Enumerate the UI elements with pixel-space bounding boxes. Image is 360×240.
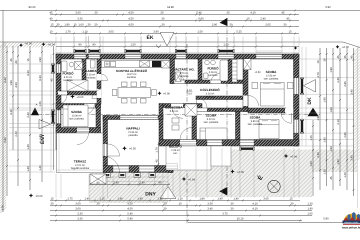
wall vestibule east: [192, 112, 197, 140]
window pantry north: [89, 54, 101, 58]
svg-text:4.10: 4.10: [250, 11, 256, 14]
level mark: [70, 94, 75, 99]
svg-text:kerámia: kerámia: [64, 79, 74, 82]
svg-text:+0.04: +0.04: [188, 179, 195, 182]
facade label DK: [304, 80, 316, 93]
dining table: [118, 88, 151, 98]
svg-text:+0.00: +0.00: [237, 171, 244, 174]
svg-text:2.85: 2.85: [344, 132, 347, 138]
wall bath1 south: [61, 91, 101, 95]
svg-text:30: 30: [57, 23, 60, 26]
svg-text:15: 15: [51, 23, 54, 26]
svg-text:DK: DK: [307, 97, 313, 105]
svg-text:1.40: 1.40: [27, 144, 30, 150]
washer utility: [176, 72, 182, 82]
svg-text:KÖZLEKEDŐ: KÖZLEKEDŐ: [200, 88, 220, 92]
svg-text:1.05: 1.05: [307, 212, 313, 215]
wall stub vestibule: [197, 104, 202, 109]
svg-text:30: 30: [231, 207, 234, 210]
door arc bedroom1-terrace: [77, 133, 89, 145]
plot boundary north line with overall dimension: [0, 10, 360, 12]
shutter box bedroom3 east: [301, 120, 303, 132]
wall bedroom1 south: [56, 128, 101, 134]
shutter box bath1: [75, 50, 85, 52]
wall bedrooms west: [243, 59, 248, 112]
svg-text:45: 45: [330, 176, 333, 179]
svg-text:30: 30: [231, 202, 234, 205]
svg-text:1.30: 1.30: [323, 169, 326, 175]
svg-text:10: 10: [50, 30, 53, 33]
svg-text:+0.00: +0.00: [77, 96, 84, 99]
section marker A left: [31, 107, 39, 115]
svg-text:1.40: 1.40: [84, 197, 90, 200]
wall exterior west: [56, 54, 61, 150]
svg-text:45: 45: [337, 55, 340, 58]
svg-text:5.40: 5.40: [127, 212, 133, 215]
svg-text:3.45: 3.45: [350, 155, 353, 161]
svg-text:1.10: 1.10: [187, 89, 192, 92]
svg-text:30: 30: [95, 11, 98, 14]
wall exterior south of living room: [103, 166, 173, 173]
pergola line above bedroom2 window: [256, 51, 282, 53]
svg-text:4.50: 4.50: [128, 17, 134, 20]
bottom dimension row 3: [50, 210, 312, 212]
svg-text:kerámia: kerámia: [209, 74, 219, 77]
door arc utility: [174, 73, 185, 84]
wall corridor north: [170, 80, 246, 84]
svg-text:ELŐSZOBA: ELŐSZOBA: [165, 105, 183, 109]
level mark: [336, 45, 340, 49]
svg-text:+0.00: +0.00: [163, 93, 170, 96]
svg-text:4.50: 4.50: [128, 23, 134, 26]
svg-text:45: 45: [10, 58, 13, 61]
shutter box kitchen: [126, 50, 140, 52]
bottom dimension row 2: [50, 205, 312, 207]
svg-text:45: 45: [350, 55, 353, 58]
svg-text:30: 30: [291, 202, 294, 205]
svg-text:45: 45: [155, 159, 158, 162]
wall bedroom1 east: [96, 104, 101, 133]
plot boundary south-east segment: [188, 222, 360, 224]
svg-text:kerámia: kerámia: [206, 96, 216, 99]
svg-text:1.15: 1.15: [99, 197, 105, 200]
svg-text:1.40: 1.40: [139, 181, 145, 184]
svg-text:otthonterv studio: otthonterv studio: [344, 221, 358, 224]
svg-text:8.30: 8.30: [27, 70, 30, 76]
wall corridor south: [192, 108, 248, 112]
svg-text:4.50: 4.50: [15, 82, 18, 88]
right dimension columns: [312, 120, 314, 196]
svg-text:1.40: 1.40: [113, 181, 119, 184]
svg-text:10: 10: [74, 23, 77, 26]
wall between east bedrooms: [248, 108, 286, 113]
wall bath1 east: [82, 59, 86, 81]
site ground hatch below porch: [168, 163, 231, 197]
svg-text:80.20: 80.20: [29, 6, 36, 9]
kitchen sink: [105, 62, 110, 67]
facade direction triangle EK: [160, 33, 174, 47]
svg-text:30: 30: [97, 202, 100, 205]
publisher logo: [341, 212, 360, 229]
svg-text:1.90: 1.90: [307, 207, 313, 210]
svg-text:10.10: 10.10: [237, 217, 244, 220]
svg-text:+0.04: +0.04: [290, 156, 297, 159]
svg-text:90: 90: [79, 44, 82, 47]
window bedroom3 south: [207, 140, 222, 146]
svg-text:3.05: 3.05: [108, 30, 114, 33]
svg-text:2.40: 2.40: [260, 17, 266, 20]
svg-text:15: 15: [51, 197, 54, 200]
svg-text:1.40: 1.40: [50, 112, 53, 118]
shaft at bedroom2 corner: [244, 59, 252, 70]
svg-text:18.80: 18.80: [167, 6, 174, 9]
svg-text:+0.34: +0.34: [48, 44, 55, 47]
svg-text:lam. parketta: lam. parketta: [248, 123, 263, 126]
svg-text:kerámia: kerámia: [180, 75, 190, 78]
svg-text:1.40: 1.40: [117, 197, 123, 200]
svg-text:SZOBA: SZOBA: [71, 110, 83, 114]
svg-text:1.90: 1.90: [323, 97, 326, 103]
wc bath2: [204, 73, 209, 79]
top dimension row 3: [50, 26, 299, 28]
svg-text:30: 30: [162, 17, 165, 20]
svg-text:1.80: 1.80: [330, 146, 333, 152]
svg-text:1.50: 1.50: [223, 44, 229, 47]
svg-text:TERASZ: TERASZ: [74, 160, 86, 164]
svg-text:30: 30: [51, 202, 54, 205]
svg-text:+0.50: +0.50: [129, 148, 136, 151]
window bedroom2 east: [294, 78, 299, 94]
boundary hatch strip west: [0, 42, 6, 213]
opening living north sliding: [120, 116, 158, 119]
level mark: [29, 193, 34, 198]
opening bedroom2 door: [243, 96, 248, 107]
pantry shelves: [91, 60, 96, 68]
bed bedroom2: [260, 82, 284, 106]
opening living terrace door: [103, 144, 107, 156]
wall corridor south inner: [196, 96, 243, 100]
extension lines bottom windows: [113, 176, 155, 185]
svg-text:1.70: 1.70: [65, 30, 71, 33]
svg-text:1.80: 1.80: [330, 107, 333, 113]
svg-text:1.50: 1.50: [130, 44, 136, 47]
svg-text:www.otthon.hu: www.otthon.hu: [341, 226, 360, 229]
svg-text:1.25: 1.25: [310, 135, 313, 141]
svg-text:1.90: 1.90: [317, 115, 320, 121]
svg-text:1.90: 1.90: [64, 23, 70, 26]
door arc bedroom1: [84, 104, 95, 115]
svg-text:30: 30: [164, 207, 167, 210]
wardrobe vestibule: [185, 104, 197, 116]
opening bedroom1 door: [84, 104, 95, 108]
svg-text:1.40: 1.40: [137, 197, 143, 200]
svg-text:30: 30: [162, 23, 165, 26]
svg-text:1.40: 1.40: [39, 134, 42, 140]
opening pantry east door: [97, 74, 102, 81]
svg-text:parketta: parketta: [128, 134, 138, 137]
svg-text:2.10: 2.10: [337, 119, 340, 125]
svg-text:3.75: 3.75: [222, 212, 228, 215]
svg-text:20: 20: [95, 23, 98, 26]
section line A vertical: [186, 44, 188, 224]
svg-text:2.40: 2.40: [15, 131, 18, 137]
kitchen dishwasher: [140, 61, 150, 68]
plot boundary west line: [2, 10, 4, 212]
level mark: [294, 46, 298, 50]
roof valley mark: [156, 45, 161, 49]
shutter box utility: [177, 50, 186, 52]
entry porch slab: [166, 146, 211, 170]
terrace steps: [90, 174, 106, 184]
opening bedroom1 terrace door: [77, 128, 89, 133]
svg-text:15: 15: [27, 58, 30, 61]
svg-text:6.60: 6.60: [198, 17, 204, 20]
svg-text:1.20: 1.20: [344, 172, 347, 178]
svg-text:1.10: 1.10: [82, 30, 88, 33]
bathtub bath1: [62, 61, 68, 72]
kitchen stove: [152, 61, 161, 67]
svg-text:5.40: 5.40: [127, 217, 133, 220]
svg-text:30: 30: [227, 11, 230, 14]
svg-text:fagyálló kerámia: fagyálló kerámia: [71, 167, 90, 170]
shaft ladder: [232, 60, 237, 83]
section marker B top: [220, 18, 228, 26]
svg-text:90: 90: [97, 181, 100, 184]
svg-text:5.25: 5.25: [236, 30, 242, 33]
section line A horizontal: [30, 114, 320, 116]
wall utility east: [198, 59, 202, 81]
window bedroom4 south: [240, 140, 254, 146]
wall vestibule north: [163, 104, 197, 108]
chairs: [122, 82, 128, 87]
small fixtures vestibule: [172, 118, 179, 123]
svg-text:2.60: 2.60: [212, 23, 218, 26]
door arc bedroom4: [281, 113, 291, 123]
svg-text:1.50: 1.50: [310, 161, 313, 167]
door arc vestibule: [172, 107, 183, 118]
svg-text:HÁZTART. HG.: HÁZTART. HG.: [173, 68, 194, 72]
shower box hall: [67, 80, 88, 91]
svg-text:+0.00: +0.00: [342, 46, 349, 49]
opening utility door: [174, 80, 185, 83]
wall exterior east: [294, 54, 300, 146]
svg-text:40: 40: [15, 60, 18, 63]
svg-text:SZOBA: SZOBA: [250, 115, 262, 119]
svg-text:3.90: 3.90: [153, 30, 159, 33]
svg-text:SZOBA: SZOBA: [206, 113, 218, 117]
svg-text:DNY: DNY: [145, 192, 156, 198]
svg-text:3.30: 3.30: [77, 212, 83, 215]
wall vestibule west: [159, 104, 163, 140]
level mark: [122, 146, 127, 151]
svg-text:45: 45: [50, 78, 53, 81]
bathtub bath2: [220, 60, 228, 81]
svg-text:1.40: 1.40: [217, 197, 223, 200]
window kitchen north: [125, 54, 141, 58]
svg-text:4.10: 4.10: [252, 202, 258, 205]
extension lines top of building: [56, 37, 299, 54]
shutter box bedroom4 south: [241, 148, 253, 150]
level mark: [158, 91, 162, 95]
svg-text:1.15: 1.15: [157, 197, 163, 200]
svg-text:30: 30: [164, 202, 167, 205]
svg-text:1.70: 1.70: [155, 147, 158, 153]
shutter box bedroom1 west: [52, 111, 54, 123]
wall face line above north wall: [56, 52, 299, 54]
svg-text:10: 10: [247, 17, 250, 20]
svg-text:15: 15: [290, 197, 293, 200]
wall pantry east: [97, 59, 101, 105]
bed bedroom4: [259, 120, 279, 139]
window living south east: [139, 166, 155, 172]
svg-text:lam. parketta: lam. parketta: [264, 78, 279, 81]
svg-text:1.40: 1.40: [233, 197, 239, 200]
shutter box bath1 west: [52, 65, 54, 72]
eaves line above north wall: [56, 46, 299, 48]
window bath2 north: [218, 54, 234, 58]
svg-text:1.90: 1.90: [39, 57, 42, 63]
svg-text:30: 30: [230, 23, 233, 26]
bottom dimension row 4: [50, 215, 312, 217]
svg-text:lam. parketta: lam. parketta: [204, 121, 219, 124]
extension lines bottom of building: [56, 174, 173, 198]
level mark: [284, 154, 289, 159]
door arc entry: [180, 128, 192, 140]
window bath1 west: [56, 64, 60, 73]
svg-text:ÉK: ÉK: [147, 34, 154, 41]
svg-text:±0.00: ±0.00: [36, 195, 43, 198]
left dimension columns: [6, 46, 8, 196]
svg-text:3.30: 3.30: [77, 17, 83, 20]
svg-text:NAPPALI: NAPPALI: [126, 127, 139, 131]
level mark: [19, 43, 23, 47]
opening bath1 door: [58, 91, 67, 94]
svg-text:KAMRA: KAMRA: [85, 69, 97, 73]
svg-text:BELÉPŐ: BELÉPŐ: [169, 145, 182, 149]
section marker B bottom: [219, 187, 227, 196]
svg-text:45: 45: [287, 17, 290, 20]
svg-text:KONYHA és ÉTKEZŐ: KONYHA és ÉTKEZŐ: [116, 69, 148, 73]
svg-text:kerámia: kerámia: [87, 77, 97, 80]
opening bedroom3 door: [196, 108, 207, 111]
wall living room north: [103, 116, 163, 120]
svg-text:8.30: 8.30: [4, 77, 7, 83]
door arc bedroom3: [197, 98, 208, 109]
window bedroom1 west: [56, 110, 60, 124]
level mark: [182, 177, 187, 182]
entry door opening: [180, 140, 196, 146]
terrace outline: [57, 133, 104, 173]
svg-text:lam. parketta: lam. parketta: [69, 118, 84, 121]
eaves line west of building: [50, 54, 52, 172]
svg-text:3.05: 3.05: [263, 197, 269, 200]
svg-text:4.50: 4.50: [127, 207, 133, 210]
section line B vertical: [226, 22, 228, 195]
svg-text:5.50 m²: 5.50 m²: [170, 110, 179, 113]
extension lines left of building: [9, 64, 55, 172]
wall exterior south of east block: [159, 140, 299, 147]
level mark: [230, 169, 235, 174]
svg-text:1.90: 1.90: [323, 137, 326, 143]
opening vestibule door: [171, 104, 183, 108]
svg-text:3.00: 3.00: [75, 11, 81, 14]
door arc living-terrace: [108, 144, 120, 156]
svg-text:+0.50: +0.50: [254, 71, 261, 74]
walkway: [211, 146, 231, 166]
paving pads south of living room: [104, 173, 111, 178]
wall living room west: [103, 116, 108, 173]
shutter box pantry: [90, 50, 100, 52]
svg-text:10: 10: [179, 202, 182, 205]
top dimension row 4: [50, 33, 299, 35]
svg-text:SZOBA: SZOBA: [266, 70, 278, 74]
svg-text:kerámia: kerámia: [127, 76, 137, 79]
north symbol circle: [268, 180, 280, 192]
svg-text:1.20: 1.20: [307, 202, 313, 205]
bed bedroom1: [63, 105, 88, 127]
svg-text:6.30: 6.30: [39, 75, 42, 81]
svg-text:2.10: 2.10: [187, 93, 192, 96]
site east edge line: [357, 47, 359, 208]
window living south west: [113, 166, 129, 172]
svg-text:5.90: 5.90: [323, 218, 329, 221]
top dimension row 2: [50, 20, 299, 22]
door arc living big: [103, 156, 120, 173]
svg-text:2.05: 2.05: [265, 23, 271, 26]
svg-text:3.30: 3.30: [77, 217, 83, 220]
svg-text:2.40: 2.40: [337, 77, 340, 83]
shutter box bedroom2 east: [301, 79, 303, 93]
wall bath2 east: [228, 59, 232, 84]
wall bedroom3 east: [236, 112, 241, 140]
svg-text:45: 45: [344, 55, 347, 58]
svg-text:3.45: 3.45: [350, 89, 353, 95]
svg-text:1.75: 1.75: [67, 197, 73, 200]
door arc bath1: [58, 95, 67, 104]
svg-text:FÜRDŐ: FÜRDŐ: [208, 67, 220, 71]
facade label ENY: [39, 120, 51, 129]
bottom dimension row 1: [50, 200, 300, 202]
svg-text:+0.00: +0.00: [25, 42, 32, 45]
svg-text:30: 30: [284, 23, 287, 26]
wall living room east: [168, 146, 173, 173]
shower bath1: [75, 62, 83, 70]
section marker A right: [308, 108, 319, 117]
opening kitchen west door: [97, 89, 102, 98]
window bath1 north: [74, 54, 86, 58]
kitchen counter: [102, 61, 171, 68]
svg-text:5.40: 5.40: [196, 11, 202, 14]
svg-text:45: 45: [50, 11, 53, 14]
site ground hatch below living room: [89, 173, 168, 203]
svg-text:5.90: 5.90: [325, 6, 331, 9]
bottom dimension row 5: [50, 220, 302, 222]
svg-text:30: 30: [161, 11, 164, 14]
svg-text:10: 10: [317, 60, 320, 63]
svg-text:4.50: 4.50: [127, 202, 133, 205]
svg-text:5.90: 5.90: [4, 137, 7, 143]
wall bedroom1 north: [56, 104, 101, 109]
washbasins bath2: [205, 60, 210, 65]
svg-text:90: 90: [159, 181, 162, 184]
wall exterior north: [56, 54, 299, 59]
svg-text:1.50: 1.50: [197, 30, 203, 33]
site north edge line: [0, 42, 360, 48]
extension lines right of building: [300, 59, 354, 146]
svg-text:ker.: ker.: [173, 152, 177, 155]
svg-text:45: 45: [282, 11, 285, 14]
level mark: [42, 43, 46, 47]
